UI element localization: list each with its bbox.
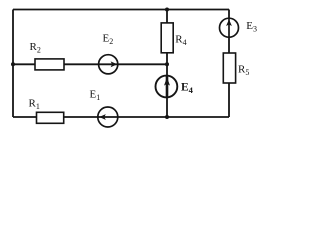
source E1 <box>98 107 118 127</box>
source E2 <box>99 55 118 74</box>
node bottom junction <box>165 115 169 119</box>
svg-text:E2: E2 <box>103 33 114 47</box>
node top junction <box>165 8 169 12</box>
source E4 <box>156 76 178 98</box>
svg-text:R4: R4 <box>175 33 186 47</box>
resistor R5 <box>223 53 235 83</box>
source E3 <box>220 18 239 37</box>
wire left edge <box>12 10 14 118</box>
svg-text:E1: E1 <box>90 89 101 103</box>
svg-text:E3: E3 <box>246 20 257 34</box>
wire center vertical bottom <box>166 97 168 117</box>
wire right between E3 and R5 <box>228 37 230 53</box>
wire right top <box>228 10 230 19</box>
wire center vertical top <box>166 10 168 24</box>
wire right bottom <box>228 83 230 117</box>
svg-text:R2: R2 <box>30 41 41 55</box>
svg-text:R5: R5 <box>238 64 249 78</box>
wire bottom <box>13 116 229 118</box>
wire middle branch horizontal <box>13 63 167 65</box>
svg-text:E4: E4 <box>181 81 194 95</box>
resistor R1 <box>37 112 64 123</box>
node left middle junction <box>11 62 15 66</box>
wire center vertical mid <box>166 54 168 77</box>
resistor R4 <box>161 23 173 53</box>
resistor R2 <box>35 59 64 70</box>
svg-text:R1: R1 <box>29 98 40 112</box>
wire top <box>13 9 229 11</box>
node center middle junction <box>165 62 169 66</box>
